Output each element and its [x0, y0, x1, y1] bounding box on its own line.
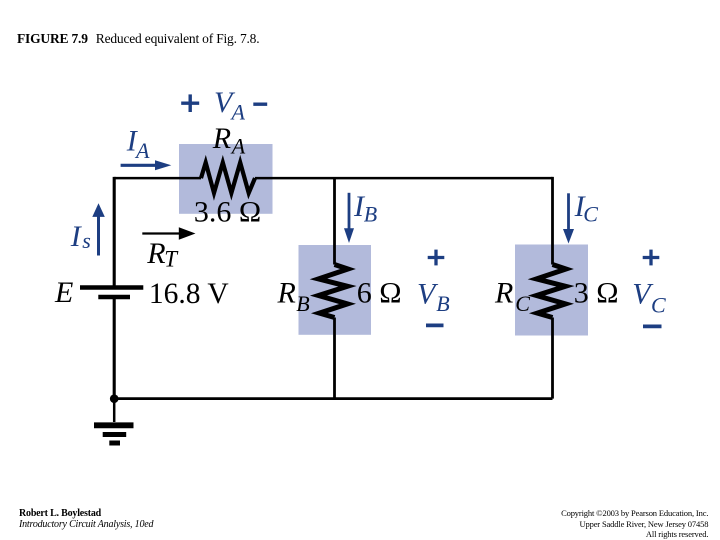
wire right vertical upper — [551, 177, 554, 265]
label VB plus — [428, 250, 445, 266]
current arrow IC — [563, 193, 574, 243]
wire middle vertical upper — [333, 178, 336, 264]
label VC plus — [643, 250, 660, 266]
svg-text:3.6 Ω: 3.6 Ω — [194, 196, 261, 229]
svg-text:C: C — [515, 291, 530, 316]
label RA — [212, 122, 246, 158]
svg-text:16.8 V: 16.8 V — [149, 278, 229, 310]
label VB — [417, 278, 450, 317]
label IC — [574, 190, 599, 227]
svg-text:I: I — [70, 220, 83, 253]
svg-text:C: C — [583, 202, 598, 227]
svg-text:A: A — [134, 138, 150, 163]
label VC — [632, 278, 666, 318]
label VA — [214, 86, 246, 125]
resistor RA zigzag — [201, 163, 255, 194]
svg-text:R: R — [277, 276, 296, 309]
node junction dot — [110, 394, 119, 403]
svg-text:B: B — [436, 291, 449, 316]
resistor RC highlight box — [515, 245, 588, 336]
resistor RA highlight box — [179, 144, 273, 214]
svg-text:s: s — [82, 228, 91, 253]
svg-text:6 Ω: 6 Ω — [357, 276, 402, 309]
ground stem — [113, 399, 116, 422]
footer right copyright — [561, 508, 708, 539]
svg-text:B: B — [296, 291, 309, 316]
wire right vertical lower — [551, 318, 554, 399]
svg-text:3 Ω: 3 Ω — [574, 276, 619, 309]
svg-text:R: R — [212, 122, 231, 155]
label Is — [70, 220, 91, 253]
label VA minus — [253, 102, 267, 105]
resistor RB highlight box — [299, 245, 372, 335]
label VB minus — [426, 324, 444, 328]
svg-text:E: E — [54, 276, 73, 309]
footer left credit — [19, 508, 153, 530]
label RT — [146, 237, 179, 271]
wire top right segment — [255, 177, 553, 180]
svg-text:T: T — [164, 247, 179, 272]
svg-text:B: B — [364, 202, 377, 227]
current arrow IB — [344, 193, 354, 243]
figure caption — [17, 31, 259, 47]
resistor RB zigzag — [319, 265, 349, 318]
resistor RC zigzag — [537, 265, 567, 318]
label IA — [126, 125, 150, 164]
ground bar 3 — [109, 441, 120, 446]
battery E short plate — [98, 295, 130, 300]
ground bar 1 — [94, 422, 134, 428]
label VC minus — [643, 324, 662, 328]
wire bottom — [114, 397, 552, 400]
arrow RT direction — [142, 227, 195, 240]
label RC — [494, 276, 530, 316]
svg-text:R: R — [146, 237, 165, 270]
svg-text:C: C — [651, 293, 666, 318]
svg-text:A: A — [230, 100, 246, 125]
label VA plus — [181, 94, 199, 112]
label RB — [277, 276, 310, 316]
battery E long plate — [80, 285, 143, 290]
svg-text:R: R — [494, 276, 513, 309]
wire left vertical upper — [113, 177, 116, 286]
wire top left segment — [114, 177, 201, 180]
wire left vertical lower — [113, 299, 116, 399]
label IB — [353, 190, 377, 227]
svg-text:A: A — [230, 134, 246, 159]
ground bar 2 — [103, 432, 127, 437]
current arrow IA — [121, 160, 172, 170]
wire middle vertical lower — [333, 318, 336, 399]
current arrow Is — [92, 203, 105, 255]
